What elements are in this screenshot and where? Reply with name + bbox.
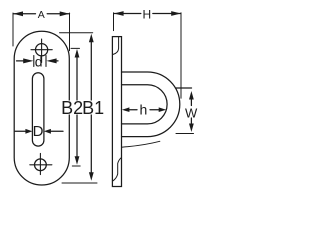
arrowhead d right [46, 58, 56, 63]
dimension H: right extension line [180, 13, 182, 98]
dimension B2: dimension line lower segment [76, 115, 78, 160]
top hole circle [36, 44, 48, 56]
arrowhead B2 bottom [75, 156, 80, 165]
svg-text:h: h [140, 102, 148, 118]
plate outline (front view stadium shape) [14, 31, 69, 185]
top hole crosshair vertical [41, 39, 43, 63]
weld/base line below loop [122, 141, 160, 147]
arrowhead D left [25, 129, 32, 134]
dimension D: right arrow shaft [50, 130, 64, 132]
svg-text:A: A [38, 9, 45, 21]
side view plate top inner edge line [113, 37, 119, 55]
arrowhead B2 top [75, 49, 80, 58]
arrowhead W up [189, 91, 194, 100]
arrowhead H right [171, 11, 181, 16]
label B1 with masking background [84, 101, 104, 115]
svg-text:B2: B2 [61, 98, 83, 118]
dimension H: dimension line [114, 13, 141, 15]
arrowhead B1 top [89, 34, 94, 43]
dimension W: top extension tick [176, 87, 192, 89]
dimension d: left arrow shaft [17, 60, 24, 62]
dimension B1: top extension line [60, 32, 93, 34]
svg-text:D: D [33, 123, 44, 140]
svg-text:W: W [185, 105, 198, 120]
dimension B2: top extension tick [71, 47, 80, 49]
dimension W: lower shaft [190, 118, 192, 126]
svg-text:d: d [35, 54, 43, 70]
svg-text:B1: B1 [82, 98, 104, 118]
dimension B1: bottom extension line [62, 182, 97, 184]
dimension A: dimension line [13, 13, 35, 15]
bottom hole circle [35, 159, 47, 171]
dimension h: left arrow shaft [128, 109, 137, 111]
eye loop inner edge [122, 85, 168, 124]
bottom hole crosshair horizontal [30, 164, 52, 166]
arrowhead W down [189, 124, 194, 133]
dimension B2: dimension line upper segment [76, 54, 78, 100]
dimension W: upper shaft [190, 97, 192, 106]
eye loop outer edge [122, 72, 180, 137]
arrowhead B1 bottom [89, 172, 94, 181]
dimension B1: dimension line lower segment [90, 115, 92, 176]
arrowhead A left [13, 11, 23, 16]
dimension A: right extension line [69, 13, 71, 51]
side view plate bottom inner edge lines [113, 158, 121, 181]
dimension H: left extension line [113, 13, 115, 31]
label B2 with masking background [63, 101, 83, 115]
dimension D: left arrow shaft [15, 130, 27, 132]
dimension d: right arrow shaft [56, 60, 58, 62]
bottom hole crosshair vertical [39, 153, 41, 174]
arrowhead A right [60, 11, 70, 16]
dimension A: left extension line [12, 13, 14, 46]
slot (oblong hole) [32, 73, 44, 146]
dimension B1: dimension line upper segment [90, 39, 92, 100]
dimension d: right tick [45, 56, 47, 67]
top hole crosshair horizontal [31, 49, 52, 51]
svg-text:H: H [142, 8, 151, 22]
side view plate rectangle [112, 37, 121, 187]
arrowhead d left [23, 58, 33, 63]
dimension h: right arrow shaft [150, 109, 160, 111]
dimension d: left tick [33, 56, 35, 67]
arrowhead h right [159, 107, 167, 112]
arrowhead D right [44, 129, 51, 134]
arrowhead h left [122, 107, 129, 112]
arrowhead H left [114, 11, 124, 16]
dimension B2: bottom extension tick [72, 165, 80, 167]
dimension W: bottom extension tick [176, 133, 194, 135]
